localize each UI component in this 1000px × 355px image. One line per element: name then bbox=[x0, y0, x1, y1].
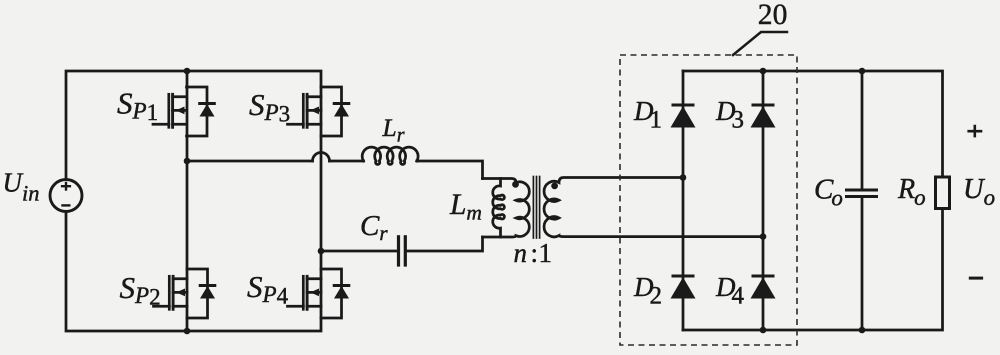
svg-text:20: 20 bbox=[758, 0, 788, 31]
svg-text:n:1: n:1 bbox=[514, 238, 553, 268]
